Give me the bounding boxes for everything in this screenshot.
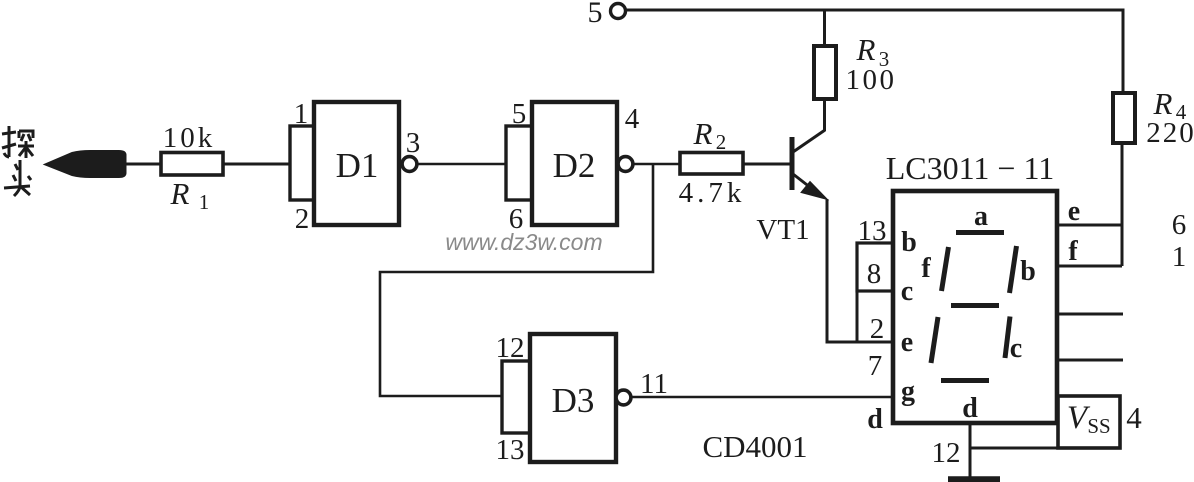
svg-text:1: 1 [199,190,210,214]
svg-text:2: 2 [716,130,727,154]
svg-text:D3: D3 [552,381,595,420]
svg-text:R: R [693,116,713,151]
svg-text:e: e [901,327,913,358]
wire R4 down to e/f pins [1121,143,1124,266]
wire e pin [1057,224,1122,227]
wire D3 to g pin [630,396,893,399]
svg-text:b: b [901,227,917,258]
wire R3 to top rail [823,10,826,47]
svg-text:8: 8 [867,258,882,290]
gate D3 input rect [502,361,530,433]
resistor R4 [1113,93,1135,143]
wire D1 to D2 [416,163,506,166]
wire R2 to VT1 base [743,163,791,166]
头 [15,164,18,170]
wire probe to R1 [123,163,161,166]
transistor VT1 [792,130,828,200]
gate D1 input rect [290,126,314,200]
svg-text:5: 5 [588,0,603,29]
svg-text:R: R [1153,86,1173,121]
svg-text:a: a [974,201,988,232]
svg-text:2: 2 [295,203,310,235]
inverter bubble D2 [618,157,633,172]
resistor R2 [680,153,743,175]
svg-text:6: 6 [1172,209,1187,241]
探 : wood part [18,145,34,148]
svg-text:f: f [1068,236,1078,267]
svg-text:4: 4 [1126,400,1142,435]
wire f pin [1057,265,1122,268]
svg-text:b: b [1020,256,1036,287]
wire collector to R3 [823,99,826,131]
svg-text:7: 7 [868,350,883,382]
gate D2 [532,102,617,225]
svg-text:1: 1 [1172,241,1187,273]
segment g mid [951,303,999,308]
segment b bar [1010,246,1017,293]
svg-text:D2: D2 [553,146,596,185]
wire c to e [856,291,859,342]
svg-text:5: 5 [512,98,527,130]
gate D2 input rect [506,126,532,200]
svg-text:g: g [901,376,915,407]
svg-text:SS: SS [1087,414,1110,438]
svg-text:12: 12 [496,332,525,364]
svg-text:CD4001: CD4001 [702,429,807,464]
wire stub 2 [1057,359,1123,362]
wire stub 1 [1057,313,1123,316]
pin 8 box [857,243,893,291]
svg-text:220: 220 [1146,117,1194,149]
svg-text:12: 12 [932,437,961,469]
segment f [942,247,949,291]
svg-text:2: 2 [870,313,885,345]
svg-text:4.7k: 4.7k [679,177,746,209]
ground [948,476,1000,482]
segment d bar [941,378,989,383]
svg-text:100: 100 [846,64,897,96]
wire R1 to D1 [223,163,290,166]
探 : right top (cover with legs) [19,131,33,138]
svg-text:13: 13 [496,434,525,466]
探 : hand radical [8,126,11,157]
svg-text:4: 4 [625,103,640,135]
wire top rail [626,10,1123,93]
svg-text:R: R [856,32,876,67]
svg-text:c: c [901,276,913,307]
svg-text:d: d [867,404,883,435]
svg-text:c: c [1010,333,1022,364]
svg-text:1: 1 [294,98,309,130]
terminal Vss box [1058,396,1120,448]
resistor R1 [161,153,223,176]
segment e bar [931,317,938,363]
svg-text:11: 11 [640,368,668,400]
svg-text:D1: D1 [336,146,379,185]
svg-text:e: e [1068,196,1080,227]
svg-text:R: R [170,176,190,211]
wire emitter to e pin [827,199,893,342]
probe tip [44,151,126,178]
wire feedback D2 to D3 [380,164,653,396]
segment c bar [1005,317,1010,359]
svg-text:LC3011 − 11: LC3011 − 11 [886,150,1055,186]
svg-text:f: f [921,253,931,284]
wire Vss bottom rail [970,447,1058,450]
svg-text:VT1: VT1 [756,214,809,246]
svg-text:www.dz3w.com: www.dz3w.com [445,229,602,255]
svg-text:3: 3 [406,127,421,159]
gate D3 [530,334,616,462]
inverter bubble D1 [402,157,417,172]
svg-text:10k: 10k [163,122,216,154]
wire pin 12 [969,423,972,478]
wire D2 to R2 [632,163,680,166]
node 探头 probe label (hand-drawn glyphs) [2,126,34,196]
inverter bubble D3 [616,390,631,405]
segment a [956,230,1004,235]
gate D1 [314,102,399,225]
svg-text:d: d [962,393,978,424]
resistor R3 [814,46,836,99]
